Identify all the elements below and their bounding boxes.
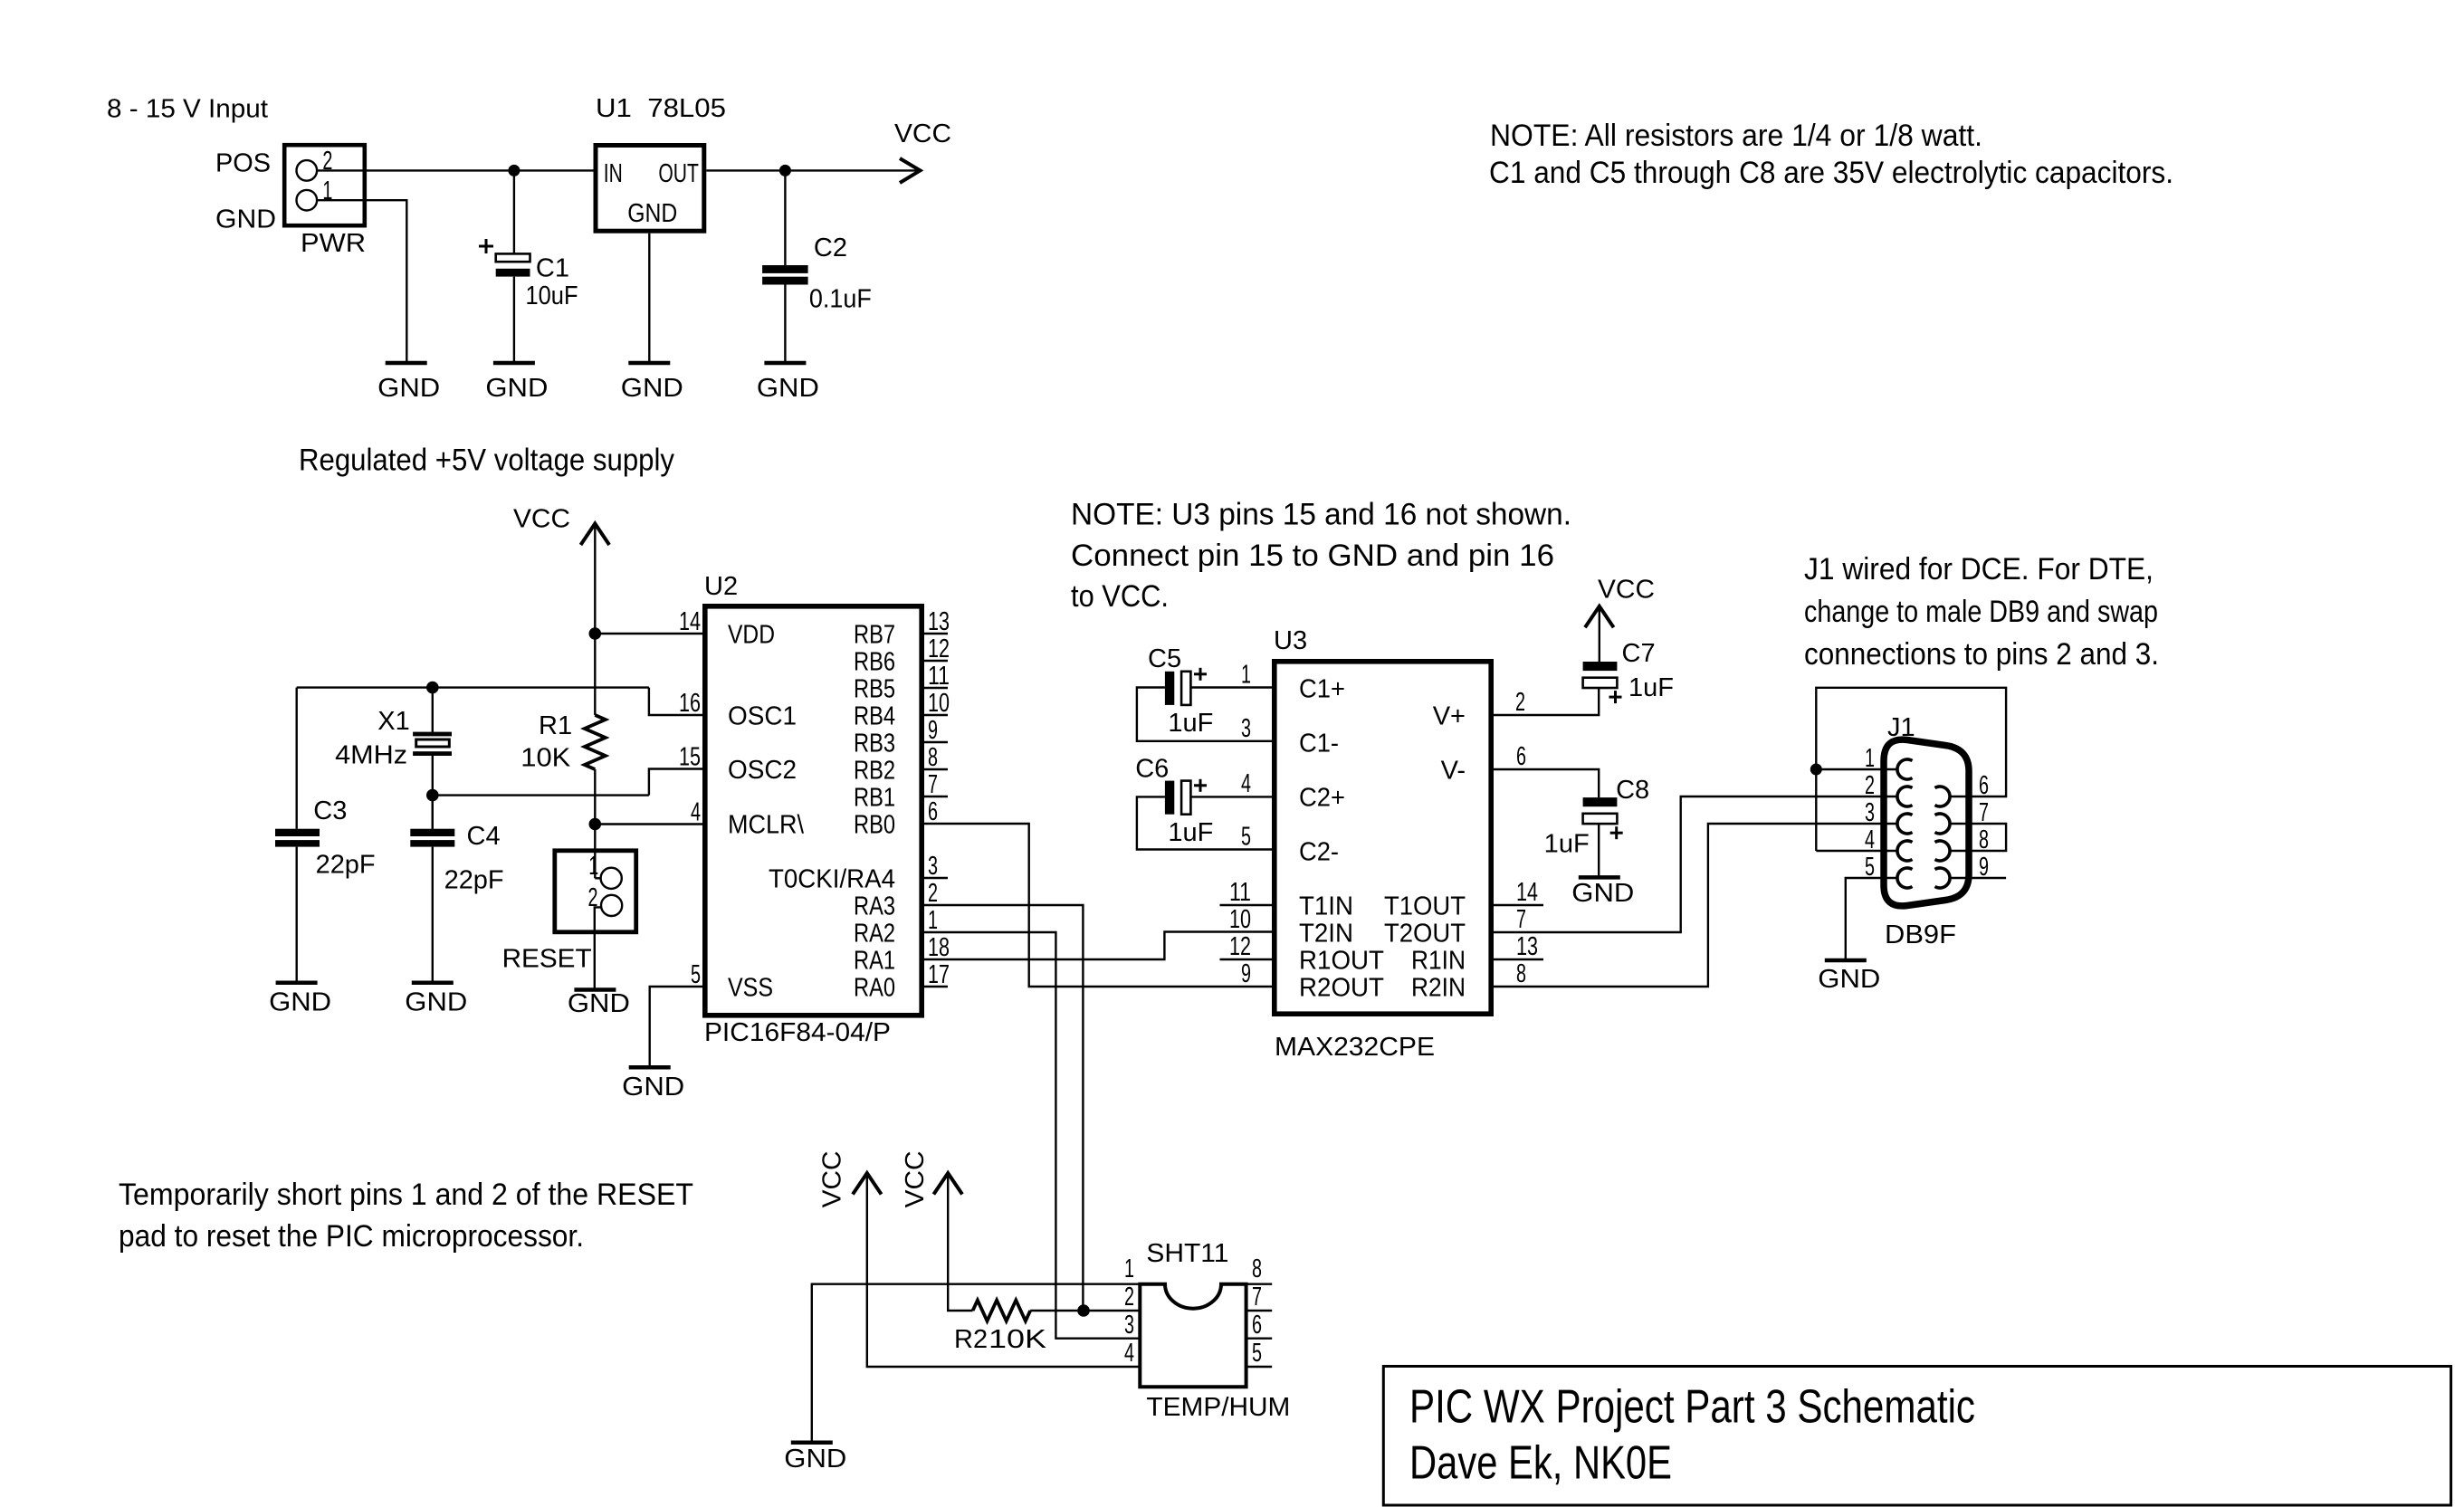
wire T2OUT to DB9 pin2 bbox=[1494, 796, 1897, 932]
wire RB0 to R2OUT bbox=[924, 824, 1274, 987]
node junction VDD tap bbox=[589, 627, 602, 640]
svg-text:SHT11: SHT11 bbox=[1146, 1239, 1228, 1268]
wire junction to C1 bbox=[513, 170, 515, 254]
svg-text:10: 10 bbox=[1229, 905, 1251, 934]
svg-text:1: 1 bbox=[1241, 661, 1251, 690]
svg-text:4: 4 bbox=[1124, 1339, 1134, 1368]
svg-text:R1: R1 bbox=[539, 711, 572, 740]
svg-text:7: 7 bbox=[1979, 798, 1989, 827]
svg-text:U2: U2 bbox=[704, 572, 738, 601]
svg-text:8 - 15 V Input: 8 - 15 V Input bbox=[107, 95, 268, 124]
svg-text:9: 9 bbox=[1979, 853, 1989, 882]
svg-text:V-: V- bbox=[1441, 757, 1466, 786]
svg-text:V+: V+ bbox=[1433, 702, 1466, 731]
svg-text:POS: POS bbox=[215, 149, 271, 178]
resistor R2 bbox=[973, 1301, 1031, 1321]
wire R1 to MCLR junction bbox=[594, 769, 596, 878]
svg-text:RA0: RA0 bbox=[854, 974, 895, 1003]
svg-text:12: 12 bbox=[1229, 932, 1251, 961]
wire VCC1 to SHT11 pin4 bbox=[867, 1175, 1141, 1368]
ground bar C1 bbox=[493, 361, 535, 366]
svg-text:T1OUT: T1OUT bbox=[1384, 892, 1466, 921]
svg-text:18: 18 bbox=[928, 933, 950, 962]
svg-text:4MHz: 4MHz bbox=[335, 741, 407, 770]
wire C8 to GND bbox=[1598, 824, 1600, 875]
svg-text:C2+: C2+ bbox=[1299, 784, 1345, 813]
svg-text:Temporarily short pins 1 and 2: Temporarily short pins 1 and 2 of the RE… bbox=[119, 1178, 693, 1212]
VCC arrow up SHT11 right bbox=[933, 1173, 962, 1194]
svg-text:Regulated +5V voltage supply: Regulated +5V voltage supply bbox=[299, 444, 674, 478]
svg-text:to VCC.: to VCC. bbox=[1071, 579, 1169, 614]
DB9 pin9 contact arc bbox=[1935, 868, 1951, 888]
svg-text:22pF: 22pF bbox=[444, 866, 504, 895]
ground bar J1 bbox=[1825, 959, 1867, 963]
svg-text:7: 7 bbox=[928, 770, 938, 799]
wire PWR pin2 to U1 IN bbox=[317, 169, 596, 171]
svg-text:5: 5 bbox=[1865, 853, 1875, 882]
svg-text:7: 7 bbox=[1252, 1283, 1262, 1311]
svg-text:17: 17 bbox=[928, 960, 950, 989]
svg-text:C1-: C1- bbox=[1299, 730, 1339, 758]
DB9 pin5 contact arc bbox=[1897, 868, 1913, 888]
svg-text:15: 15 bbox=[679, 743, 701, 772]
svg-text:T2IN: T2IN bbox=[1299, 920, 1353, 949]
capacitor C4 top plate bbox=[410, 829, 454, 836]
svg-text:C2: C2 bbox=[814, 234, 847, 262]
U3 stub R1IN bbox=[1494, 959, 1543, 960]
U2 stub RB5 bbox=[924, 687, 948, 689]
svg-text:GND: GND bbox=[757, 374, 819, 403]
svg-text:3: 3 bbox=[1124, 1311, 1134, 1340]
svg-text:NOTE: All resistors are 1/4 or: NOTE: All resistors are 1/4 or 1/8 watt. bbox=[1490, 119, 1982, 153]
svg-text:T1IN: T1IN bbox=[1299, 892, 1353, 921]
RESET pad box bbox=[555, 851, 636, 932]
svg-text:22pF: 22pF bbox=[316, 851, 376, 880]
svg-text:PWR: PWR bbox=[301, 229, 366, 258]
wire J1 pin4 bbox=[1816, 850, 1897, 852]
U2 stub RB6 bbox=[924, 660, 948, 662]
svg-text:OSC2: OSC2 bbox=[728, 756, 797, 785]
svg-text:8: 8 bbox=[1516, 959, 1526, 988]
wire VSS pin 5 to GND bbox=[650, 987, 704, 1065]
svg-text:pad to reset the PIC microproc: pad to reset the PIC microprocessor. bbox=[119, 1219, 584, 1254]
svg-text:GND: GND bbox=[627, 199, 677, 228]
wire R2 to SHT11 pin2 bbox=[1030, 1310, 1140, 1311]
capacitor C1 bottom plate bbox=[496, 269, 530, 277]
node junction C1 tap bbox=[508, 165, 520, 176]
svg-text:3: 3 bbox=[928, 852, 938, 881]
svg-text:RB2: RB2 bbox=[854, 757, 895, 786]
wire C6 loop to pin5 bbox=[1137, 796, 1274, 849]
svg-text:VCC: VCC bbox=[513, 504, 570, 533]
svg-text:PIC WX Project Part 3 Schemati: PIC WX Project Part 3 Schematic bbox=[1409, 1381, 1975, 1434]
svg-text:RA2: RA2 bbox=[854, 920, 895, 949]
ground bar C3 bbox=[276, 980, 318, 985]
svg-text:VSS: VSS bbox=[728, 974, 773, 1003]
capacitor C2 top plate bbox=[762, 265, 808, 273]
svg-text:VCC: VCC bbox=[818, 1150, 847, 1207]
C8 plus sign bbox=[1610, 832, 1623, 835]
U3 stub T1IN bbox=[1220, 904, 1275, 906]
svg-text:2: 2 bbox=[928, 879, 938, 908]
svg-text:RB4: RB4 bbox=[854, 702, 895, 731]
svg-text:U1 78L05: U1 78L05 bbox=[596, 94, 726, 123]
svg-text:RA3: RA3 bbox=[854, 892, 895, 921]
svg-text:VCC: VCC bbox=[901, 1150, 930, 1207]
svg-text:14: 14 bbox=[679, 607, 701, 636]
RESET pin 1 circle bbox=[601, 868, 622, 889]
svg-text:1: 1 bbox=[928, 906, 938, 935]
DB9 pin4 contact arc bbox=[1897, 841, 1913, 861]
wire J1 pins 7-8 tie bbox=[1950, 824, 2006, 851]
wire C4 to GND bbox=[432, 847, 434, 981]
svg-text:J1 wired for DCE. For DTE,: J1 wired for DCE. For DTE, bbox=[1804, 552, 2154, 587]
svg-text:VDD: VDD bbox=[728, 621, 775, 650]
wire PWR pin1 down to GND bbox=[317, 200, 406, 361]
wire RA2 to SHT11 clock bbox=[924, 932, 1140, 1339]
wire U1 GND pin to ground bbox=[648, 234, 650, 361]
svg-text:GND: GND bbox=[1818, 965, 1880, 994]
svg-text:TEMP/HUM: TEMP/HUM bbox=[1146, 1393, 1290, 1422]
IC U2 box bbox=[705, 606, 922, 1016]
svg-text:connections to pins 2 and 3.: connections to pins 2 and 3. bbox=[1804, 637, 2159, 672]
capacitor C4 bottom plate bbox=[410, 840, 454, 847]
svg-text:GND: GND bbox=[405, 987, 467, 1016]
svg-text:5: 5 bbox=[691, 960, 701, 989]
U2 stub RB7 bbox=[924, 633, 948, 634]
svg-text:change to male DB9 and swap: change to male DB9 and swap bbox=[1804, 595, 2158, 629]
svg-text:3: 3 bbox=[1865, 798, 1875, 827]
wire C5 loop to pin3 bbox=[1137, 688, 1274, 741]
wire U1 OUT to VCC arrow bbox=[706, 169, 919, 171]
ground bar SHT11 bbox=[791, 1441, 833, 1445]
node junction crystal bottom bbox=[426, 789, 439, 802]
node junction MCLR tap bbox=[589, 818, 602, 831]
svg-text:8: 8 bbox=[1979, 825, 1989, 854]
svg-text:C5: C5 bbox=[1148, 644, 1181, 673]
VCC arrow up SHT11 left bbox=[853, 1173, 882, 1194]
svg-text:10: 10 bbox=[928, 689, 950, 718]
svg-text:R2IN: R2IN bbox=[1411, 974, 1466, 1003]
svg-text:GND: GND bbox=[784, 1445, 846, 1474]
svg-text:2: 2 bbox=[1124, 1283, 1134, 1311]
SHT11 stub pin5 bbox=[1246, 1366, 1273, 1368]
capacitor C5 hollow plate bbox=[1181, 672, 1190, 705]
node junction C2 tap bbox=[779, 165, 791, 176]
wire C4 top lead bbox=[432, 796, 434, 829]
capacitor C6 solid plate bbox=[1165, 781, 1174, 815]
svg-text:VCC: VCC bbox=[1598, 575, 1655, 604]
regulator U1 box bbox=[596, 146, 704, 232]
crystal X1 top plate bbox=[413, 732, 452, 737]
wire V- to C8 bbox=[1494, 769, 1599, 797]
svg-text:RESET: RESET bbox=[502, 944, 592, 973]
DB9 connector outline bbox=[1884, 739, 1969, 906]
svg-text:GND: GND bbox=[568, 989, 630, 1018]
svg-text:T2OUT: T2OUT bbox=[1384, 920, 1466, 949]
svg-text:RB3: RB3 bbox=[854, 730, 895, 758]
svg-text:RB6: RB6 bbox=[854, 648, 895, 677]
svg-text:14: 14 bbox=[1516, 878, 1538, 907]
svg-text:16: 16 bbox=[679, 689, 701, 718]
ground bar PWR bbox=[386, 361, 427, 366]
svg-text:GND: GND bbox=[485, 374, 548, 403]
C6 plus sign bbox=[1194, 784, 1207, 787]
svg-text:R2OUT: R2OUT bbox=[1299, 974, 1384, 1003]
capacitor C5 solid plate bbox=[1165, 672, 1174, 705]
svg-text:1: 1 bbox=[588, 852, 598, 881]
stub J1 pin9 bbox=[1950, 877, 2006, 879]
svg-text:GND: GND bbox=[215, 205, 276, 234]
title block box bbox=[1383, 1367, 2450, 1506]
svg-text:RB7: RB7 bbox=[854, 621, 895, 650]
wire V+ to C7 bbox=[1494, 688, 1599, 715]
svg-text:T0CKI/RA4: T0CKI/RA4 bbox=[769, 865, 895, 894]
svg-text:DB9F: DB9F bbox=[1885, 920, 1956, 949]
svg-text:6: 6 bbox=[1252, 1311, 1262, 1340]
svg-text:C2-: C2- bbox=[1299, 838, 1339, 867]
svg-text:C8: C8 bbox=[1616, 776, 1649, 805]
IC U3 box bbox=[1275, 662, 1491, 1014]
svg-text:C1: C1 bbox=[536, 254, 569, 283]
VCC arrow up at U2 bbox=[581, 524, 610, 546]
svg-text:4: 4 bbox=[1865, 825, 1875, 854]
SHT11 stub pin6 bbox=[1246, 1337, 1273, 1339]
svg-text:1: 1 bbox=[1865, 744, 1875, 773]
svg-text:5: 5 bbox=[1252, 1339, 1262, 1368]
svg-text:RB0: RB0 bbox=[854, 811, 895, 840]
SHT11 stub pin8 bbox=[1246, 1283, 1273, 1284]
node junction crystal top bbox=[426, 682, 439, 694]
svg-text:VCC: VCC bbox=[894, 119, 951, 148]
svg-text:11: 11 bbox=[928, 662, 950, 691]
wire junction to C2 bbox=[784, 170, 786, 265]
wire C3 top lead bbox=[296, 688, 298, 829]
svg-text:13: 13 bbox=[1516, 932, 1538, 961]
svg-text:R2: R2 bbox=[954, 1325, 988, 1354]
svg-text:6: 6 bbox=[1979, 771, 1989, 800]
capacitor C8 solid plate bbox=[1583, 797, 1618, 806]
svg-text:1uF: 1uF bbox=[1168, 709, 1213, 738]
wire C1 to GND bbox=[513, 277, 515, 361]
svg-text:Dave Ek, NK0E: Dave Ek, NK0E bbox=[1409, 1437, 1672, 1490]
ground bar C8 bbox=[1579, 875, 1620, 880]
svg-text:0.1uF: 0.1uF bbox=[809, 285, 872, 314]
svg-text:13: 13 bbox=[928, 607, 950, 636]
capacitor C2 bottom plate bbox=[762, 277, 808, 285]
svg-text:Connect pin 15 to GND and pin: Connect pin 15 to GND and pin 16 bbox=[1071, 539, 1554, 573]
svg-text:OSC1: OSC1 bbox=[728, 702, 797, 731]
crystal X1 body bbox=[416, 739, 450, 747]
svg-text:5: 5 bbox=[1241, 823, 1251, 852]
capacitor C6 hollow plate bbox=[1181, 781, 1190, 815]
capacitor C3 top plate bbox=[275, 829, 320, 836]
DB9 pin6 contact arc bbox=[1935, 787, 1951, 806]
U2 stub RA0 bbox=[924, 986, 948, 987]
capacitor C7 hollow plate bbox=[1583, 678, 1618, 688]
wire OSC1 net horizontal bbox=[297, 686, 649, 688]
svg-text:8: 8 bbox=[1252, 1254, 1262, 1283]
RESET pin 2 circle bbox=[601, 895, 622, 916]
svg-text:3: 3 bbox=[1241, 714, 1251, 743]
VCC arrow right bbox=[900, 158, 921, 183]
svg-text:OUT: OUT bbox=[658, 159, 699, 188]
wire RA3 to SHT11 data bbox=[924, 905, 1083, 1311]
svg-text:10K: 10K bbox=[520, 744, 571, 773]
svg-text:9: 9 bbox=[1241, 959, 1251, 988]
PWR pin 1 circle bbox=[297, 190, 318, 211]
svg-text:6: 6 bbox=[928, 797, 938, 826]
capacitor C8 hollow plate bbox=[1583, 814, 1618, 824]
capacitor C1 plus sign bbox=[479, 245, 493, 248]
svg-text:2: 2 bbox=[1865, 771, 1875, 800]
wire OSC2 jog to pin 15 bbox=[649, 769, 704, 796]
capacitor C3 bottom plate bbox=[275, 840, 320, 847]
wire VCC2 to R2 bbox=[948, 1175, 972, 1311]
svg-text:11: 11 bbox=[1229, 878, 1251, 907]
svg-text:NOTE: U3 pins 15 and 16 not sh: NOTE: U3 pins 15 and 16 not shown. bbox=[1071, 498, 1571, 532]
svg-text:4: 4 bbox=[1241, 769, 1251, 798]
svg-text:C3: C3 bbox=[313, 796, 347, 825]
svg-text:PIC16F84-04/P: PIC16F84-04/P bbox=[704, 1018, 891, 1047]
svg-text:1uF: 1uF bbox=[1544, 830, 1590, 859]
wire C2 to GND bbox=[784, 285, 786, 362]
svg-text:7: 7 bbox=[1516, 905, 1526, 934]
U3 stub R1OUT bbox=[1220, 959, 1275, 960]
DB9 pin2 contact arc bbox=[1897, 787, 1913, 806]
svg-text:8: 8 bbox=[928, 743, 938, 772]
crystal X1 bottom plate bbox=[413, 751, 452, 756]
svg-text:1uF: 1uF bbox=[1168, 818, 1213, 847]
node junction SHT11 data bbox=[1077, 1304, 1090, 1317]
wire into RESET pin 1 bbox=[595, 877, 600, 879]
U2 stub RB4 bbox=[924, 714, 948, 716]
ground bar C4 bbox=[412, 980, 454, 985]
svg-text:X1: X1 bbox=[377, 707, 409, 736]
sensor SHT11 box bbox=[1140, 1284, 1246, 1388]
connector PWR box bbox=[284, 145, 365, 225]
VCC arrow up at C7 bbox=[1585, 606, 1614, 627]
svg-text:12: 12 bbox=[928, 634, 950, 663]
U2 stub RB2 bbox=[924, 768, 948, 770]
wire C6 to pin4 bbox=[1190, 796, 1274, 797]
svg-text:GND: GND bbox=[377, 374, 440, 403]
svg-text:1: 1 bbox=[1124, 1254, 1134, 1283]
PWR pin 2 circle bbox=[297, 160, 318, 181]
resistor R1 bbox=[585, 715, 606, 769]
wire OSC2 net horizontal bbox=[433, 794, 649, 796]
svg-text:C7: C7 bbox=[1622, 639, 1656, 668]
DB9 pin1 contact arc bbox=[1897, 759, 1913, 779]
wire J1 pin1 bbox=[1816, 768, 1897, 770]
wire VCC to VDD junction bbox=[594, 525, 596, 716]
svg-text:R1OUT: R1OUT bbox=[1299, 947, 1384, 976]
svg-text:MAX232CPE: MAX232CPE bbox=[1275, 1033, 1435, 1062]
wire SHT11 pin1 to GND bbox=[812, 1284, 1141, 1441]
svg-text:10uF: 10uF bbox=[526, 281, 578, 310]
wire OSC1 jog to pin 16 bbox=[649, 688, 704, 715]
SHT11 stub pin7 bbox=[1246, 1310, 1273, 1311]
svg-text:2: 2 bbox=[1515, 688, 1525, 717]
svg-text:C1 and C5 through C8 are 35V e: C1 and C5 through C8 are 35V electrolyti… bbox=[1489, 156, 2173, 190]
wire VDD pin 14 bbox=[595, 633, 704, 634]
C7 plus sign bbox=[1609, 696, 1622, 699]
svg-text:U3: U3 bbox=[1274, 626, 1307, 655]
wire RESET pin 2 to GND bbox=[595, 907, 601, 987]
svg-text:RB5: RB5 bbox=[854, 675, 895, 704]
U3 stub T1OUT bbox=[1494, 904, 1543, 906]
DB9 pin8 contact arc bbox=[1935, 841, 1951, 861]
node junction J1 pin1 bbox=[1810, 764, 1822, 776]
ground bar C2 bbox=[764, 361, 806, 366]
svg-text:RA1: RA1 bbox=[854, 947, 895, 976]
svg-text:6: 6 bbox=[1516, 742, 1526, 771]
ground bar U1 bbox=[628, 361, 670, 366]
svg-text:RB1: RB1 bbox=[854, 784, 895, 813]
U2 stub RA4 bbox=[924, 877, 948, 879]
ground bar RESET bbox=[574, 987, 616, 992]
wire R2IN to DB9 pin3 bbox=[1494, 824, 1897, 987]
svg-text:GND: GND bbox=[1571, 879, 1634, 908]
svg-text:IN: IN bbox=[604, 159, 623, 188]
svg-text:GND: GND bbox=[621, 374, 683, 403]
wire crystal top lead bbox=[432, 688, 434, 732]
svg-text:1uF: 1uF bbox=[1628, 673, 1674, 702]
wire J1 pin5 to GND bbox=[1846, 878, 1897, 959]
C5 plus sign bbox=[1194, 672, 1207, 675]
svg-text:4: 4 bbox=[691, 798, 701, 827]
svg-text:10K: 10K bbox=[988, 1325, 1047, 1354]
svg-text:GND: GND bbox=[269, 987, 331, 1016]
svg-text:MCLR\: MCLR\ bbox=[728, 811, 805, 840]
wire C5 to pin1 bbox=[1190, 686, 1274, 688]
wire C7 to VCC arrow bbox=[1599, 608, 1600, 663]
wire C3 to GND bbox=[296, 847, 298, 981]
svg-text:R1IN: R1IN bbox=[1411, 947, 1466, 976]
ground bar VSS bbox=[629, 1065, 671, 1070]
DB9 pin7 contact arc bbox=[1935, 814, 1951, 834]
svg-text:C4: C4 bbox=[467, 822, 501, 851]
DB9 pin3 contact arc bbox=[1897, 814, 1913, 834]
capacitor C1 top plate (electrolytic hollow) bbox=[496, 253, 530, 262]
svg-text:C6: C6 bbox=[1135, 754, 1169, 783]
svg-text:9: 9 bbox=[928, 716, 938, 745]
wire crystal bottom lead bbox=[432, 756, 434, 829]
wire MCLR pin 4 bbox=[595, 823, 704, 825]
wire J1 pins 1-4-6 tie loop bbox=[1816, 688, 2006, 851]
U2 stub RB3 bbox=[924, 741, 948, 743]
wire RA1 to T2IN bbox=[924, 932, 1274, 960]
svg-text:GND: GND bbox=[622, 1073, 684, 1102]
capacitor C7 solid plate bbox=[1583, 662, 1618, 671]
U2 stub RB1 bbox=[924, 796, 948, 797]
svg-text:C1+: C1+ bbox=[1299, 675, 1345, 704]
